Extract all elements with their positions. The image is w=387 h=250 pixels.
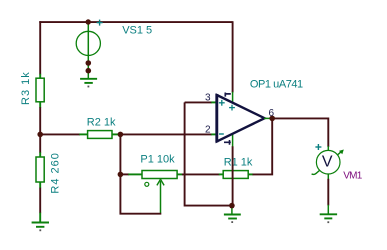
svg-text:2: 2 xyxy=(205,124,211,135)
resistor R1 xyxy=(223,171,253,179)
svg-text:V: V xyxy=(322,154,333,171)
op-amp positive supply marker xyxy=(229,105,235,111)
wire top rail xyxy=(39,21,232,23)
svg-text:R1 1k: R1 1k xyxy=(224,156,253,168)
pin 7 label xyxy=(225,93,231,97)
voltage source VS1 xyxy=(76,22,100,63)
wire op-amp pin 4 drop xyxy=(232,134,234,206)
wire ground stub op-amp xyxy=(231,206,233,215)
pin 3 label xyxy=(205,92,211,103)
label P1 10k xyxy=(140,153,175,165)
wire op-amp pin 3 xyxy=(185,101,217,103)
svg-text:P1 10k: P1 10k xyxy=(140,153,175,165)
voltmeter VM1 xyxy=(312,150,344,175)
junction dot ground pin xyxy=(86,68,92,74)
svg-text:R2 1k: R2 1k xyxy=(87,117,116,129)
potentiometer P1 xyxy=(142,171,177,214)
wire R2 to op-amp pin 2 xyxy=(120,133,216,135)
wire op-amp output stub xyxy=(264,117,272,119)
junction dot R2 right xyxy=(118,132,124,138)
wire feedback R1 to output xyxy=(253,118,273,174)
wire R4 to ground xyxy=(39,188,41,223)
label R4 260 xyxy=(49,152,61,193)
wire down to P1 node xyxy=(119,134,121,174)
svg-text:VS1 5: VS1 5 xyxy=(122,24,152,36)
label OP1 uA741 xyxy=(250,78,303,90)
junction dot VS1 top xyxy=(86,19,91,24)
label VM1 xyxy=(343,171,362,182)
junction dot VS1 bottom xyxy=(86,60,92,66)
op-amp minus input marker xyxy=(219,133,224,135)
ground at op-amp xyxy=(224,215,241,224)
ground below VS1 xyxy=(80,79,97,88)
junction dot P1 left xyxy=(118,172,124,178)
wire P1 right to R1 left xyxy=(177,173,223,175)
wire left vertical from rail to R3 xyxy=(39,21,41,78)
wire R3 to node xyxy=(39,107,41,134)
wire node to R4 xyxy=(39,134,41,157)
pin 2 label xyxy=(205,124,211,135)
wire P1 wiper return xyxy=(120,174,161,213)
VS1 plus terminal marker xyxy=(97,20,103,26)
svg-text:3: 3 xyxy=(205,92,211,103)
ground at VM1 xyxy=(320,214,337,223)
node junction dot R3/R4/R2 xyxy=(37,132,43,138)
op-amp plus input marker xyxy=(219,100,225,106)
resistor R2 xyxy=(88,131,121,139)
wire VM1 to ground xyxy=(327,174,329,214)
label R2 1k xyxy=(87,117,116,129)
VM1 plus terminal marker xyxy=(315,144,321,150)
svg-text:OP1 uA741: OP1 uA741 xyxy=(250,78,303,90)
ground below R4 xyxy=(32,223,49,232)
label VS1 5 xyxy=(122,24,152,36)
svg-text:R3 1k: R3 1k xyxy=(20,71,32,105)
pin 4 label xyxy=(224,140,231,145)
wire VS1 to ground xyxy=(87,63,89,79)
resistor R4 xyxy=(36,157,44,188)
op-amp OP1 xyxy=(217,94,265,142)
label R1 1k xyxy=(224,156,253,168)
resistor R3 xyxy=(36,78,44,108)
wire P1 left stub xyxy=(120,173,142,175)
wire pin3 to ground run xyxy=(185,102,232,205)
wire node to R2 xyxy=(40,133,88,135)
wire op-amp pin 7 drop xyxy=(232,21,234,102)
svg-text:VM1: VM1 xyxy=(343,171,362,182)
svg-text:R4 260: R4 260 xyxy=(49,152,61,193)
pin 6 label xyxy=(269,108,275,119)
label R3 1k xyxy=(20,71,32,105)
junction dot output xyxy=(269,116,275,122)
junction dot op-amp ground xyxy=(229,203,235,209)
wire output to VM1 xyxy=(272,118,328,150)
